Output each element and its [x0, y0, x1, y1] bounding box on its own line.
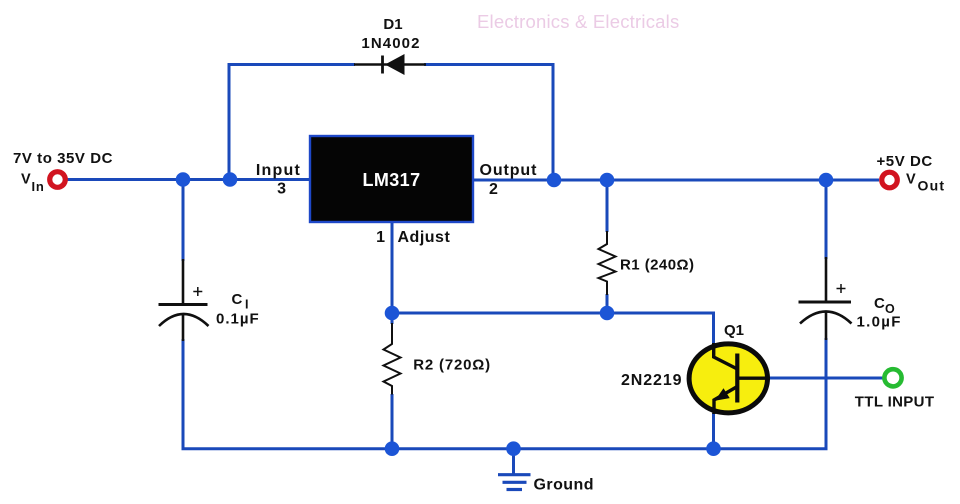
- wire: R1 vertical above: [606, 180, 609, 232]
- svg-text:R2 (720Ω): R2 (720Ω): [413, 357, 491, 374]
- wire: adjust pin vertical: [391, 222, 394, 313]
- wire: right diode vertical drop: [552, 63, 555, 180]
- svg-text:Output: Output: [480, 162, 538, 179]
- svg-text:3: 3: [277, 181, 286, 198]
- junction node: R1 top / output rail: [600, 173, 615, 188]
- svg-text:D1: D1: [383, 16, 402, 33]
- svg-text:7V to 35V DC: 7V to 35V DC: [13, 150, 113, 167]
- wire: left diode vertical drop: [228, 63, 231, 180]
- svg-text:LM317: LM317: [362, 170, 420, 190]
- wire: emitter drop: [712, 413, 715, 449]
- junction node: diode left / input rail: [223, 172, 238, 187]
- junction node: ground / bottom rail: [506, 441, 521, 456]
- wire: CO vertical above: [825, 180, 828, 259]
- svg-text:V: V: [21, 172, 31, 188]
- wire: adjust rail: [392, 312, 715, 315]
- svg-text:C: C: [874, 295, 885, 312]
- svg-text:TTL INPUT: TTL INPUT: [855, 394, 935, 411]
- svg-text:1: 1: [376, 229, 385, 246]
- svg-text:Out: Out: [918, 178, 946, 194]
- junction node: CO top / output rail: [819, 173, 834, 188]
- svg-text:C: C: [232, 291, 243, 308]
- svg-text:2: 2: [489, 181, 498, 198]
- wire: left vertical below CI: [182, 339, 185, 450]
- transistor Q1 body: [689, 343, 770, 414]
- wire: left vertical above CI: [182, 180, 185, 261]
- wire: bottom rail: [182, 447, 828, 450]
- terminal VIn (red ring): [50, 172, 66, 188]
- terminal VOut (red ring): [882, 172, 898, 188]
- wire: top rail left segment (to diode anode): [229, 63, 355, 66]
- wire: top rail right segment (from diode cathode): [424, 63, 553, 66]
- svg-text:1N4002: 1N4002: [361, 35, 420, 52]
- wire: R2 vertical below: [391, 394, 394, 449]
- wire: collector drop: [712, 312, 715, 344]
- wire: ground stub: [512, 449, 515, 474]
- ground symbol: [498, 475, 531, 490]
- svg-text:Ground: Ground: [534, 477, 594, 494]
- IC U1 LM317 body: [310, 136, 473, 222]
- svg-text:Q1: Q1: [724, 322, 744, 339]
- svg-text:0.1µF: 0.1µF: [216, 311, 260, 328]
- junction node: adjust rail left: [385, 306, 400, 321]
- resistor R2 body: [384, 323, 401, 395]
- wire: R1 vertical below: [606, 294, 609, 313]
- capacitor CO body: [799, 257, 852, 340]
- wire: input rail: [67, 178, 310, 181]
- wire: CO vertical below: [825, 338, 828, 449]
- junction node: R1 bottom / adjust rail: [600, 306, 615, 321]
- svg-text:R1 (240Ω): R1 (240Ω): [620, 257, 694, 274]
- terminal TTL INPUT (green ring): [884, 369, 901, 386]
- junction node: R2 bottom rail: [385, 441, 400, 456]
- svg-text:Electronics & Electricals: Electronics & Electricals: [477, 11, 679, 32]
- junction node: diode right / output rail: [547, 173, 562, 188]
- wire: R2 vertical above: [391, 313, 394, 324]
- resistor R1 body: [599, 231, 616, 295]
- svg-text:I: I: [245, 298, 248, 312]
- svg-text:+5V DC: +5V DC: [877, 153, 933, 170]
- capacitor CI body: [159, 259, 209, 341]
- junction node: emitter / bottom rail: [706, 441, 721, 456]
- wire: output rail: [473, 179, 879, 182]
- svg-text:Input: Input: [256, 162, 301, 179]
- svg-text:Adjust: Adjust: [398, 229, 451, 246]
- svg-text:V: V: [906, 172, 916, 188]
- svg-text:1.0µF: 1.0µF: [857, 314, 902, 331]
- junction node: CI / input rail: [176, 172, 191, 187]
- svg-text:In: In: [32, 179, 45, 194]
- svg-text:2N2219: 2N2219: [621, 372, 682, 389]
- diode D1 body: [354, 54, 426, 75]
- wire: TTL base rail: [769, 377, 885, 380]
